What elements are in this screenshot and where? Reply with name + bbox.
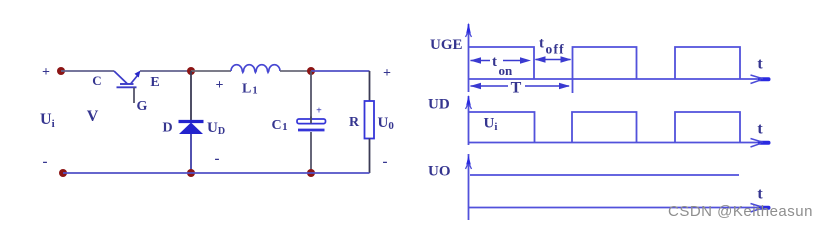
label + (diode voltage positive) xyxy=(216,78,224,93)
UD pulse 2 xyxy=(572,112,637,143)
transistor V (IGBT) xyxy=(114,71,141,88)
label t (UO axis) xyxy=(757,186,763,203)
wire bottom rail xyxy=(63,172,370,174)
svg-text:E: E xyxy=(150,75,159,90)
node capacitor top junction xyxy=(307,67,315,75)
label C1 xyxy=(272,118,288,133)
dimension arrow t_on xyxy=(470,57,531,63)
wire gate lead of V xyxy=(133,88,135,104)
UO vertical axis xyxy=(466,154,472,220)
label C (collector) xyxy=(92,73,101,88)
label t_on xyxy=(492,54,513,78)
svg-text:C1: C1 xyxy=(272,118,288,133)
UO output level line xyxy=(470,174,739,176)
svg-text:-: - xyxy=(383,154,388,170)
watermark CSDN xyxy=(668,203,818,220)
wire load branch upper xyxy=(369,71,371,101)
label UGE xyxy=(430,37,463,53)
svg-text:UD: UD xyxy=(207,120,225,137)
svg-text:-: - xyxy=(43,154,48,170)
label - (output negative) xyxy=(383,154,388,170)
capacitor C1 (polarized) xyxy=(297,117,326,131)
svg-text:G: G xyxy=(137,99,148,114)
svg-text:UO: UO xyxy=(428,164,451,180)
UGE pulse 2 with period boundary xyxy=(573,47,637,93)
svg-text:ton: ton xyxy=(492,54,513,78)
node - terminal dot bottom-left xyxy=(59,169,67,177)
label D xyxy=(162,121,172,136)
label UD xyxy=(428,97,450,113)
svg-text:+: + xyxy=(216,78,224,93)
node + terminal dot top-left xyxy=(57,67,65,75)
label - (diode voltage negative) xyxy=(215,151,220,167)
label t (UGE axis) xyxy=(757,56,763,73)
label R xyxy=(349,115,360,130)
svg-text:Ui: Ui xyxy=(484,116,498,134)
inductor L1 xyxy=(231,65,280,73)
UD pulse 1 xyxy=(469,112,535,143)
label Ui (in UD pulse) xyxy=(484,116,498,134)
wire top rail: emitter to diode node xyxy=(140,70,191,72)
svg-text:V: V xyxy=(87,108,99,125)
label E (emitter) xyxy=(150,75,159,90)
label V xyxy=(87,108,99,125)
UO time axis xyxy=(469,204,769,213)
UGE pulse 3 xyxy=(675,47,740,79)
svg-text:Ui: Ui xyxy=(40,111,55,130)
svg-text:R: R xyxy=(349,115,360,130)
svg-text:toff: toff xyxy=(539,36,565,57)
svg-text:+: + xyxy=(42,65,50,80)
svg-text:L1: L1 xyxy=(242,82,258,97)
label Ui xyxy=(40,111,55,130)
label - (input negative) xyxy=(43,154,48,170)
svg-text:U0: U0 xyxy=(378,115,395,132)
resistor R xyxy=(365,101,375,139)
label t_off xyxy=(539,36,565,57)
svg-text:+: + xyxy=(316,106,322,117)
svg-text:t: t xyxy=(757,121,763,138)
diode D (freewheeling) xyxy=(179,122,204,135)
node capacitor bottom junction xyxy=(307,169,315,177)
label + (input positive) xyxy=(42,65,50,80)
label UO xyxy=(428,164,451,180)
node diode top junction xyxy=(187,67,195,75)
wire top rail: capacitor node to load corner xyxy=(311,70,370,72)
wire load branch lower xyxy=(369,139,371,174)
UD time axis xyxy=(469,139,769,148)
svg-text:-: - xyxy=(215,151,220,167)
wire capacitor branch lower xyxy=(310,132,312,173)
node diode bottom junction xyxy=(187,169,195,177)
svg-text:C: C xyxy=(92,73,101,88)
UGE pulse 1 xyxy=(469,47,535,79)
wire diode branch lower xyxy=(190,134,192,173)
label Uo (output voltage) xyxy=(378,115,395,132)
svg-text:+: + xyxy=(383,66,391,81)
label t (UD axis) xyxy=(757,121,763,138)
label T xyxy=(511,80,522,97)
label L1 xyxy=(242,82,258,97)
svg-text:D: D xyxy=(162,121,172,136)
UGE vertical axis xyxy=(466,23,472,93)
svg-text:t: t xyxy=(757,56,763,73)
svg-text:UD: UD xyxy=(428,97,450,113)
label + (capacitor polarity) xyxy=(316,106,322,117)
dimension arrow T xyxy=(470,83,570,89)
label G (gate) xyxy=(137,99,148,114)
wire top rail: diode node to inductor xyxy=(191,70,231,72)
UGE time axis xyxy=(469,75,769,84)
wire capacitor branch upper xyxy=(310,71,312,119)
UD pulse 3 xyxy=(675,112,740,143)
svg-text:t: t xyxy=(757,186,763,203)
wire top rail: inductor to capacitor node xyxy=(280,70,311,72)
wire diode branch upper xyxy=(190,71,192,122)
UD vertical axis xyxy=(466,95,472,145)
label UD (diode voltage) xyxy=(207,120,225,137)
label + (output positive) xyxy=(383,66,391,81)
wire top rail: left dot to transistor collector xyxy=(61,70,114,72)
svg-text:T: T xyxy=(511,80,522,97)
svg-text:UGE: UGE xyxy=(430,37,463,53)
dimension arrow t_off xyxy=(535,56,572,62)
